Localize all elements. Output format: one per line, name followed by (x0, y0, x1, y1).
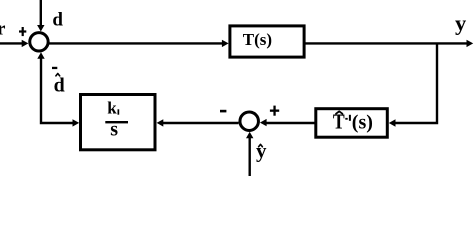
arrowhead into ki/s block right (157, 119, 164, 126)
svg-text:r: r (0, 19, 6, 40)
arrowhead into S2 bottom (246, 132, 253, 139)
superscript minus of -1 (345, 118, 347, 120)
svg-text:(s): (s) (352, 112, 373, 134)
wire S2 to block ki/s (162, 122, 239, 124)
wire y-hat input from bottom (248, 138, 250, 177)
superscript 1 (349, 115, 351, 121)
arrowhead into summing junction S1 top (37, 25, 44, 32)
minus sign at S2 left output side (220, 110, 226, 113)
hat accent over y-hat (259, 144, 263, 146)
subscript 1 of k (118, 109, 120, 114)
arrowhead into T(s) (222, 40, 229, 47)
arrowhead into ki/s block left (73, 119, 80, 126)
plus sign at S1 left input (19, 30, 26, 32)
arrowhead into S2 right (260, 119, 267, 126)
svg-text:y: y (256, 138, 267, 162)
wire S1 to block T(s) (48, 42, 223, 44)
fraction bar (105, 121, 128, 123)
block ki/s (81, 95, 156, 150)
hat accent over T (336, 111, 342, 113)
svg-text:y: y (455, 10, 467, 35)
summing junction S2 (240, 112, 259, 131)
wire d-hat feedback from ki/s up to S1 (41, 58, 74, 124)
svg-text:s: s (110, 118, 118, 140)
wire feedback branch down at right (394, 43, 437, 123)
plus sign at S2 right input (270, 110, 279, 112)
svg-text:d: d (54, 75, 65, 97)
wire T(s) to output y (305, 42, 468, 44)
arrowhead into T-hat-inverse block right (389, 119, 396, 126)
svg-text:k: k (107, 99, 117, 118)
svg-text:d: d (52, 9, 63, 30)
arrowhead into S1 bottom (37, 52, 44, 59)
arrowhead into summing junction S1 left (22, 40, 29, 47)
wire r input (0, 42, 23, 44)
svg-text:T(s): T(s) (243, 30, 272, 49)
block T(s) (230, 26, 304, 57)
wire d input from top (40, 0, 42, 26)
summing junction S1 (30, 33, 48, 51)
hat accent over d-hat (56, 74, 60, 76)
block T-hat-inverse of s (316, 109, 388, 138)
wire T-hat-inverse to summing junction S2 (266, 122, 316, 124)
arrowhead output y (467, 40, 474, 47)
minus sign at S1 bottom input (52, 67, 57, 69)
